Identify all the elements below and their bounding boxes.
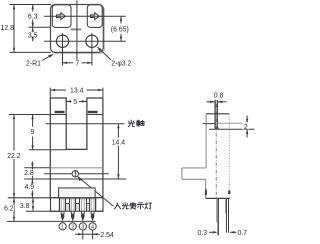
svg-text:2.8: 2.8 xyxy=(24,170,34,177)
svg-text:2.54: 2.54 xyxy=(100,232,114,239)
svg-text:4: 4 xyxy=(91,224,94,230)
svg-text:3: 3 xyxy=(81,224,84,230)
svg-text:2: 2 xyxy=(244,124,248,131)
svg-text:6.2: 6.2 xyxy=(4,206,14,213)
svg-text:7: 7 xyxy=(75,60,79,67)
svg-text:9: 9 xyxy=(31,129,35,136)
svg-text:6.3: 6.3 xyxy=(28,13,38,20)
svg-text:4.9: 4.9 xyxy=(25,184,35,191)
svg-text:2: 2 xyxy=(71,224,74,230)
svg-text:0.7: 0.7 xyxy=(238,230,248,237)
svg-text:14.4: 14.4 xyxy=(112,140,126,147)
svg-text:(6.65): (6.65) xyxy=(111,27,129,34)
svg-text:2-R1: 2-R1 xyxy=(26,61,41,68)
svg-text:3.5: 3.5 xyxy=(28,33,38,40)
svg-text:12.8: 12.8 xyxy=(0,25,14,32)
svg-text:13.4: 13.4 xyxy=(70,88,84,95)
svg-text:1: 1 xyxy=(61,224,64,230)
svg-text:22.2: 22.2 xyxy=(7,153,21,160)
svg-text:5: 5 xyxy=(73,99,77,106)
svg-text:0.8: 0.8 xyxy=(214,93,224,100)
svg-text:0.3: 0.3 xyxy=(198,230,208,237)
svg-text:2-φ3.2: 2-φ3.2 xyxy=(111,60,131,67)
svg-text:3.8: 3.8 xyxy=(20,203,30,210)
